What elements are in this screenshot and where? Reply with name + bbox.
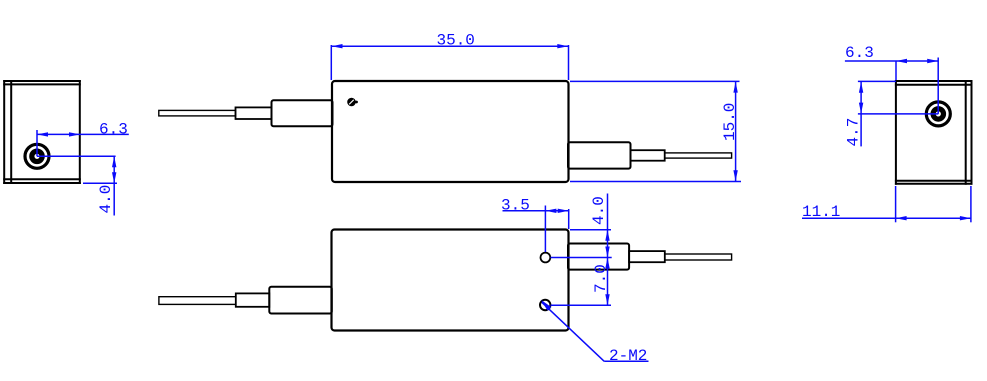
svg-text:4.0: 4.0 xyxy=(590,196,608,225)
svg-text:4.7: 4.7 xyxy=(845,118,863,147)
svg-text:6.3: 6.3 xyxy=(99,121,128,139)
svg-text:15.0: 15.0 xyxy=(721,103,739,141)
svg-text:4.0: 4.0 xyxy=(97,185,115,214)
svg-text:11.1: 11.1 xyxy=(802,203,840,221)
svg-text:2-M2: 2-M2 xyxy=(609,347,647,365)
svg-text:3.5: 3.5 xyxy=(501,196,530,214)
svg-text:35.0: 35.0 xyxy=(437,31,475,49)
svg-text:6.3: 6.3 xyxy=(845,44,874,62)
svg-text:7.0: 7.0 xyxy=(592,264,610,293)
